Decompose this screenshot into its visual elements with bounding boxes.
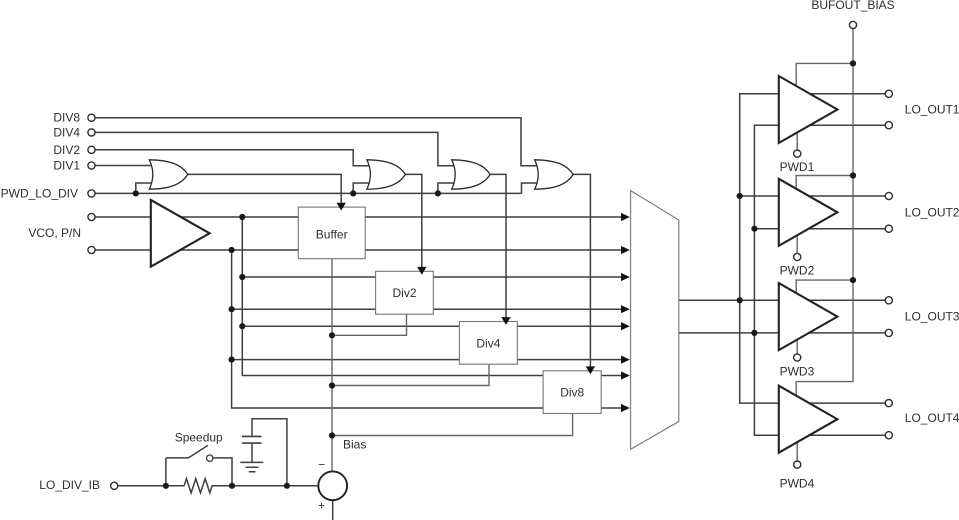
terminal DIV1 bbox=[88, 162, 95, 169]
node right bus P at A2 bbox=[737, 193, 743, 199]
current source I1 bbox=[318, 471, 347, 500]
arrow mux in row7 bbox=[621, 371, 630, 379]
terminal LO_OUT2 N bbox=[885, 225, 892, 232]
svg-text:Div8: Div8 bbox=[560, 386, 584, 400]
svg-text:+: + bbox=[318, 499, 325, 513]
wire mux out P to output buffers bbox=[679, 299, 885, 301]
svg-text:LO_OUT1: LO_OUT1 bbox=[905, 103, 959, 117]
wire speedup switch left riser bbox=[165, 458, 167, 486]
wire DIV1 net bbox=[95, 165, 153, 167]
svg-text:LO_OUT3: LO_OUT3 bbox=[905, 310, 959, 324]
arrow into Div8 enable bbox=[586, 366, 595, 374]
svg-text:Speedup: Speedup bbox=[175, 430, 223, 444]
node capacitor junction bbox=[284, 483, 290, 489]
terminal LO_OUT4 P bbox=[885, 400, 892, 407]
terminal PWD3 bbox=[794, 354, 801, 361]
terminal PWD4 bbox=[794, 461, 801, 468]
svg-text:LO_DIV_IB: LO_DIV_IB bbox=[39, 478, 100, 492]
terminal PWD2 bbox=[794, 253, 801, 260]
arrow mux in row5 bbox=[621, 322, 630, 330]
terminal DIV8 bbox=[88, 114, 95, 121]
wire Div4 bias bbox=[332, 364, 489, 385]
wire U5 output to Div8 enable bbox=[573, 174, 590, 367]
block Div2 bbox=[376, 271, 434, 314]
node Div2 P tap bbox=[239, 274, 245, 280]
svg-text:Buffer: Buffer bbox=[316, 228, 348, 242]
mux selector bbox=[631, 191, 679, 450]
wire U4 output to Div4 enable bbox=[490, 174, 506, 318]
terminal LO_DIV_IB bbox=[111, 482, 118, 489]
node PWD junction at U4 bbox=[435, 190, 441, 196]
terminal BUFOUT_BIAS bbox=[849, 21, 856, 28]
amplifier A2 output buffer 2 bbox=[779, 179, 838, 246]
wire PWD_LO_DIV net bbox=[95, 192, 521, 194]
node PWD junction at U3 bbox=[350, 190, 356, 196]
arrow into Buffer enable bbox=[337, 203, 346, 211]
svg-text:VCO, P/N: VCO, P/N bbox=[28, 226, 81, 240]
wire PWD branch to U3 bbox=[353, 183, 370, 193]
terminal VCO P bbox=[88, 213, 95, 220]
node right bus P at mux out bbox=[737, 297, 743, 303]
node Div4 P tap bbox=[239, 323, 245, 329]
node right bus N at mux out bbox=[751, 330, 757, 336]
wire Div8 bias bbox=[332, 414, 573, 436]
wire bias tap to A1 bbox=[796, 63, 853, 86]
arrow mux in row4 bbox=[621, 305, 630, 313]
node bias tap A2 bbox=[850, 172, 856, 178]
svg-text:PWD3: PWD3 bbox=[780, 364, 815, 378]
svg-text:DIV8: DIV8 bbox=[53, 111, 80, 125]
wire BUFOUT_BIAS vertical bus bbox=[796, 29, 853, 398]
svg-text:LO_OUT4: LO_OUT4 bbox=[905, 411, 959, 425]
BIAS (gray) WIRES bbox=[332, 29, 853, 472]
ground bbox=[240, 462, 263, 471]
wire Div4 in/out row P bbox=[242, 325, 621, 327]
svg-text:Div4: Div4 bbox=[476, 336, 500, 350]
terminal PWD_LO_DIV bbox=[88, 190, 95, 197]
arrow into Div2 enable bbox=[417, 267, 426, 275]
node VCO N tap bbox=[229, 247, 235, 253]
block Div4 bbox=[459, 322, 517, 365]
arrow mux in row3 bbox=[621, 273, 630, 281]
wire U2 output to Buffer enable bbox=[188, 174, 341, 203]
terminal PWD1 bbox=[794, 150, 801, 157]
svg-text:PWD_LO_DIV: PWD_LO_DIV bbox=[1, 186, 78, 200]
terminal LO_OUT1 N bbox=[885, 122, 892, 129]
resistor R1 bbox=[166, 479, 232, 493]
wire Div2 bias bbox=[332, 314, 407, 335]
amplifier A4 output buffer 4 bbox=[779, 386, 838, 453]
wire bias tap to A3 bbox=[796, 280, 853, 293]
node resistor right junction bbox=[229, 483, 235, 489]
terminal LO_OUT2 P bbox=[885, 192, 892, 199]
node PWD junction at U2 bbox=[133, 190, 139, 196]
node Div2 N tap bbox=[229, 306, 235, 312]
wire PWD3 stub bbox=[796, 340, 798, 354]
switch S1 blade bbox=[166, 445, 208, 458]
wire bus P taps: Div2/Div4/Div8 plus inputs bbox=[242, 217, 621, 376]
svg-text:−: − bbox=[318, 458, 325, 472]
wire Div2 in/out row P bbox=[242, 276, 621, 278]
wire speedup switch right leg bbox=[213, 458, 232, 486]
wire bias tap to A2 bbox=[796, 176, 853, 189]
wire LO_DIV_IB to current source bbox=[118, 485, 318, 487]
amplifier U1 VCO input buffer bbox=[151, 200, 210, 267]
wire DIV4 net bbox=[95, 132, 455, 165]
wire DIV8 net bbox=[95, 118, 538, 166]
wire PWD branch to U2 bbox=[136, 183, 153, 193]
terminal LO_OUT1 P bbox=[885, 90, 892, 97]
wire right bus P feeding A1/A2/A4 bbox=[740, 94, 886, 403]
or-gate U2 bbox=[149, 160, 188, 189]
svg-text:Div2: Div2 bbox=[392, 286, 416, 300]
svg-text:PWD1: PWD1 bbox=[780, 160, 815, 174]
TERMINALS bbox=[88, 21, 893, 489]
node bias-Div2 junction bbox=[329, 332, 335, 338]
node bias-Div4 junction bbox=[329, 382, 335, 388]
svg-text:DIV4: DIV4 bbox=[53, 125, 80, 139]
arrow mux in row6 bbox=[621, 356, 630, 364]
node VCO P tap bbox=[239, 214, 245, 220]
wire right bus N feeding A1/A2/A4 bbox=[754, 125, 885, 435]
wire U3 output to Div2 enable bbox=[405, 174, 421, 267]
ARROWHEADS bbox=[337, 203, 630, 412]
block Div8 bbox=[543, 371, 601, 414]
wire VCO P row to mux bbox=[95, 216, 621, 218]
or-gate U3 bbox=[367, 160, 406, 189]
arrow into Div4 enable bbox=[501, 317, 510, 325]
wire A2 row N bbox=[754, 228, 885, 230]
svg-text:LO_OUT2: LO_OUT2 bbox=[905, 205, 959, 219]
wire Buffer bias line down to current source bbox=[331, 259, 333, 472]
arrow mux in row8 bbox=[621, 404, 630, 412]
wire PWD branch to U4 bbox=[438, 183, 455, 193]
wire capacitor to ground bbox=[251, 443, 253, 462]
terminal LO_OUT4 N bbox=[885, 432, 892, 439]
terminal LO_OUT3 P bbox=[885, 297, 892, 304]
svg-text:DIV2: DIV2 bbox=[53, 143, 80, 157]
wire A2 row P bbox=[740, 195, 886, 197]
or-gate U4 bbox=[452, 160, 491, 189]
terminal LO_OUT3 N bbox=[885, 329, 892, 336]
arrow mux in row2 bbox=[621, 246, 630, 254]
wire Div2 in/out row N bbox=[232, 308, 622, 310]
wire DIV2 net bbox=[95, 150, 370, 166]
node Div4 N tap bbox=[229, 357, 235, 363]
capacitor C1 plates bbox=[242, 436, 262, 443]
node Bias junction bbox=[329, 432, 335, 438]
svg-text:DIV1: DIV1 bbox=[53, 159, 80, 173]
wire VCO N row to mux bbox=[95, 249, 621, 251]
wire mux out N to output buffers bbox=[679, 332, 885, 334]
node right bus N at A2 bbox=[751, 226, 757, 232]
wire PWD branch to U5 bbox=[522, 183, 539, 193]
wire below current source I1 bbox=[332, 500, 334, 520]
svg-text:PWD2: PWD2 bbox=[780, 264, 815, 278]
svg-text:Bias: Bias bbox=[343, 437, 366, 451]
svg-text:BUFOUT_BIAS: BUFOUT_BIAS bbox=[811, 0, 894, 12]
node bias tap A3 bbox=[850, 277, 856, 283]
SHAPES bbox=[149, 76, 837, 500]
or-gate U5 bbox=[535, 160, 574, 189]
wire PWD2 stub bbox=[796, 235, 798, 253]
arrow mux in row1 bbox=[621, 213, 630, 221]
block Buffer bbox=[298, 207, 365, 259]
wire Div4 in/out row N bbox=[232, 359, 622, 361]
terminal VCO N bbox=[88, 246, 95, 253]
svg-text:PWD4: PWD4 bbox=[780, 477, 815, 491]
amplifier A1 output buffer 1 bbox=[779, 76, 838, 143]
wire capacitor loop to bias node bbox=[252, 419, 287, 486]
wire bus N taps: Div2/Div4/Div8 minus inputs bbox=[232, 250, 622, 408]
node resistor left junction bbox=[163, 483, 169, 489]
switch S1 contact bbox=[207, 455, 213, 461]
terminal DIV2 bbox=[88, 146, 95, 153]
node bias tap A1 bbox=[850, 60, 856, 66]
wire PWD1 stub bbox=[796, 133, 798, 151]
wire PWD4 stub bbox=[796, 442, 798, 461]
terminal DIV4 bbox=[88, 129, 95, 136]
amplifier A3 output buffer 3 bbox=[779, 283, 838, 350]
